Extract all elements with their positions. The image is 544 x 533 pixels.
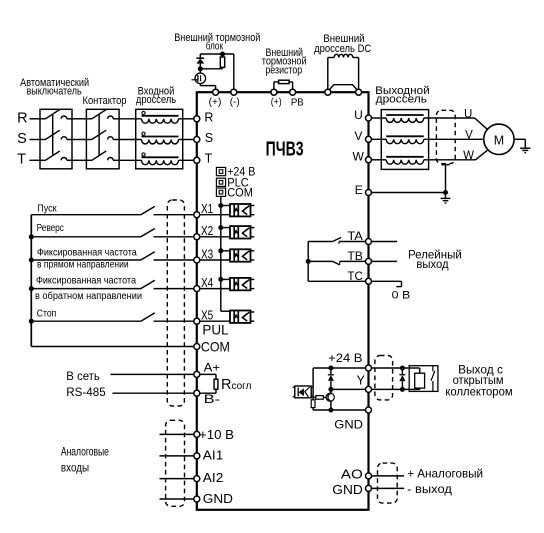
terminal DC choke b on top bus — [356, 89, 362, 95]
ground symbol at E — [441, 197, 451, 199]
transistor VT1 (brake IGBT) — [199, 69, 201, 73]
node E-ground junction — [443, 190, 448, 195]
optocoupler U-X5 — [230, 311, 251, 323]
svg-text:Y: Y — [357, 374, 366, 388]
wire X5 bus to switch — [31, 320, 141, 322]
terminal X3 on PCHV3 — [194, 257, 200, 263]
svg-text:X2: X2 — [201, 223, 213, 238]
svg-text:+24 В: +24 В — [328, 351, 362, 365]
svg-text:GND: GND — [332, 483, 363, 497]
cable screen analog inputs (dashed) — [166, 420, 185, 506]
terminal T on PCHV3 — [194, 157, 200, 163]
inductor L-DC (external DC choke) — [327, 58, 329, 90]
wire X3 opto outputs — [251, 250, 255, 252]
terminal R on PCHV3 — [194, 116, 200, 122]
transistor VT2 (open collector) — [326, 393, 334, 401]
relay contacts common bar — [307, 242, 309, 282]
wire TC to 0V — [371, 280, 401, 282]
wire AI2 external stub — [160, 478, 195, 480]
wire U terminal to choke — [371, 117, 386, 119]
wire X3 bus to switch — [31, 259, 141, 261]
shield of motor cable (dashed box) — [436, 110, 455, 163]
svg-text:(+): (+) — [209, 96, 222, 108]
wire motor to ground — [514, 138, 525, 140]
wire W terminal to choke — [371, 159, 386, 161]
terminal X1 on PCHV3 — [194, 212, 200, 218]
terminal W output — [366, 157, 372, 163]
terminal (-) brake on top bus — [231, 89, 237, 95]
svg-text:V: V — [465, 130, 473, 142]
svg-text:GND: GND — [203, 491, 233, 506]
svg-text:TB: TB — [347, 251, 363, 263]
wire TA external — [371, 241, 397, 243]
circuit breaker QF1 box — [40, 109, 72, 169]
svg-text:AI1: AI1 — [203, 447, 224, 462]
node bus junction X5 — [29, 319, 34, 324]
svg-text:V: V — [354, 129, 362, 143]
cable screen Y output (dashed) — [375, 356, 393, 400]
wire Y external — [371, 388, 409, 390]
terminal AI1 — [194, 453, 200, 459]
output choke winding W — [386, 160, 424, 164]
svg-text:A+: A+ — [204, 361, 221, 375]
wire U choke to motor — [424, 117, 475, 119]
svg-text:X4: X4 — [201, 275, 213, 290]
svg-text:- выход: - выход — [407, 482, 452, 496]
wire X5 switch to terminal — [154, 320, 195, 322]
node bus junction X4 — [29, 286, 34, 291]
wire Y internal — [331, 388, 366, 390]
relay contact TB — [308, 260, 332, 262]
terminal DC choke a on top bus — [325, 89, 331, 95]
wire X2 opto cathode — [200, 236, 230, 238]
svg-text:R: R — [204, 110, 213, 124]
cable screen digital inputs (dashed) — [167, 200, 184, 406]
svg-text:W: W — [353, 150, 365, 164]
node emitter-ground junction — [328, 408, 333, 413]
svg-text:COM: COM — [201, 339, 230, 355]
resistor R-charge of brake unit — [222, 54, 224, 57]
wire X1 opto anode — [221, 205, 230, 207]
wire X2 opto anode — [221, 227, 230, 229]
node TB junction — [306, 259, 311, 264]
breaker pole T — [40, 159, 46, 161]
terminal TA — [366, 239, 372, 245]
input choke L1 box — [136, 109, 183, 169]
wire GND external stub — [160, 498, 195, 500]
wire X2 switch to terminal — [154, 236, 195, 238]
node flyback diode bottom — [400, 387, 405, 392]
wire X5 opto cathode — [200, 320, 230, 322]
svg-text:U: U — [464, 108, 472, 120]
wire brake unit to (+) terminal — [200, 85, 215, 87]
wire X1 bus to switch — [31, 214, 141, 216]
terminal X2 on PCHV3 — [194, 234, 200, 240]
wire X4 switch to terminal — [154, 288, 195, 290]
svg-text:Фиксированная частота: Фиксированная частота — [36, 276, 136, 287]
svg-text:X5: X5 — [201, 308, 213, 323]
svg-text:дроссель: дроссель — [136, 94, 176, 106]
breaker linkage bar — [52, 114, 54, 156]
resistor R-emitter pulldown — [311, 400, 315, 408]
wire R contactor to choke — [119, 118, 141, 120]
switch S-X4 blade — [141, 280, 155, 288]
internal common bus to optocouplers — [220, 196, 222, 311]
terminal GND ao — [366, 485, 372, 491]
wire X2 bus to switch — [31, 236, 141, 238]
terminal B- — [194, 390, 200, 396]
motor M1 — [484, 124, 514, 154]
wire AO external — [371, 475, 404, 477]
resistor R-base — [316, 396, 324, 400]
jumper link between DC terminals — [329, 85, 358, 91]
jumper block square +24V — [216, 167, 225, 175]
svg-text:Контактор: Контактор — [83, 95, 127, 107]
wire A+ external — [111, 373, 195, 375]
terminal AI2 — [194, 476, 200, 482]
svg-text:R: R — [17, 110, 27, 126]
svg-text:дроссель: дроссель — [376, 93, 427, 105]
resistor R-term (Rsogl) — [200, 373, 216, 375]
terminal A+ — [194, 371, 200, 377]
output choke L2 box — [381, 110, 428, 170]
relay contact TA — [308, 241, 332, 243]
wire brake unit top bus — [200, 53, 234, 55]
terminal V output — [366, 136, 372, 142]
wire opto to base junction — [311, 396, 313, 398]
optocoupler U6 output — [295, 386, 311, 398]
node brake bottom junction — [198, 66, 203, 71]
terminal +24V — [366, 365, 372, 371]
node opto junction X1 — [218, 203, 223, 208]
diode VD1 of brake unit — [199, 54, 201, 58]
optocoupler U-X3 — [230, 249, 251, 261]
terminal (+) resistor on top bus — [271, 89, 277, 95]
svg-text:+10 В: +10 В — [199, 427, 234, 442]
wire to (-) terminal — [233, 54, 235, 90]
wire T choke to terminal — [179, 159, 195, 161]
svg-text:в обратном направлении: в обратном направлении — [35, 290, 142, 302]
breaker pole S — [40, 139, 46, 141]
node bus junction X3 — [29, 258, 34, 263]
node opto junction X2 — [218, 225, 223, 230]
svg-text:Стоп: Стоп — [37, 309, 57, 320]
terminal E (earth) — [366, 190, 372, 196]
wire GND ao external — [371, 487, 404, 489]
svg-text:блок: блок — [206, 40, 223, 52]
optocoupler U-X2 — [230, 226, 251, 238]
wire X1 opto outputs — [251, 205, 255, 207]
wire T from label to breaker — [30, 159, 41, 161]
node opto junction X3 — [218, 248, 223, 253]
terminal S on PCHV3 — [194, 137, 200, 143]
wire S choke to terminal — [179, 139, 195, 141]
wire diode to resistor bottom — [200, 68, 222, 70]
svg-text:X3: X3 — [201, 246, 213, 261]
wire X4 bus to switch — [31, 288, 141, 290]
svg-text:U: U — [354, 108, 363, 122]
external relay K1 box — [409, 366, 438, 392]
wire TC internal — [308, 280, 366, 282]
svg-text:AO: AO — [341, 467, 363, 482]
terminal GND — [194, 496, 200, 502]
wire T contactor to choke — [119, 159, 141, 161]
wire AI1 external stub — [160, 455, 195, 457]
internal ground bus — [313, 409, 366, 411]
wire TB external — [371, 260, 397, 262]
svg-text:дроссель DC: дроссель DC — [314, 43, 371, 55]
svg-text:ПЧВ3: ПЧВ3 — [266, 138, 304, 160]
wire X1 opto cathode — [200, 214, 230, 216]
terminal (+) brake on top bus — [213, 89, 219, 95]
svg-text:RS-485: RS-485 — [66, 385, 106, 399]
svg-text:(-): (-) — [230, 96, 240, 108]
svg-text:(+): (+) — [271, 96, 282, 108]
input choke winding R — [142, 119, 179, 123]
terminal TC — [366, 278, 372, 284]
terminal COM on PCHV3 — [194, 344, 200, 350]
node Y collector junction — [328, 387, 333, 392]
svg-text:COM: COM — [227, 187, 253, 199]
wire +24V external — [371, 367, 409, 369]
svg-text:Реверс: Реверс — [37, 223, 64, 234]
terminal AO — [366, 473, 372, 479]
node bus junction X2 — [29, 234, 34, 239]
resistor R-brake — [273, 82, 275, 90]
wire S from label to breaker — [30, 139, 41, 141]
contactor pole R — [86, 118, 92, 120]
switch S-X5 blade — [141, 313, 155, 321]
wire X2 opto outputs — [251, 227, 255, 229]
wire R choke to terminal — [179, 118, 195, 120]
wire T breaker to contactor — [72, 159, 86, 161]
wire X3 switch to terminal — [154, 259, 195, 261]
breaker pole R — [40, 118, 46, 120]
svg-text:T: T — [205, 152, 213, 166]
wire S breaker to contactor — [72, 139, 86, 141]
svg-text:GND: GND — [334, 418, 363, 432]
svg-text:AI2: AI2 — [203, 470, 224, 485]
svg-text:TC: TC — [347, 271, 363, 283]
svg-text:Аналоговые: Аналоговые — [61, 444, 109, 458]
optocoupler U-X4 — [230, 278, 251, 290]
svg-text:Фиксированная частота: Фиксированная частота — [37, 248, 137, 259]
svg-text:РВ: РВ — [291, 96, 304, 108]
wire V terminal to choke — [371, 138, 386, 140]
node brake top junction — [220, 52, 225, 57]
svg-text:выключатель: выключатель — [27, 86, 82, 98]
relay K1 coil — [409, 367, 420, 369]
contactor pole S — [86, 139, 92, 141]
common bus of control switches — [30, 215, 32, 347]
terminal Y — [366, 386, 372, 392]
wire R breaker to contactor — [72, 118, 86, 120]
output choke winding U — [386, 118, 424, 122]
switch S-X3 blade — [141, 252, 155, 260]
wire X5 opto outputs — [251, 311, 255, 313]
frequency converter unit PCHV3 (main box) — [197, 92, 369, 510]
wire V choke to motor — [424, 138, 484, 140]
svg-text:TA: TA — [347, 231, 363, 243]
svg-text:0 В: 0 В — [392, 289, 411, 301]
svg-text:B-: B- — [204, 392, 221, 406]
zener diode VD2 — [330, 368, 332, 375]
terminal X5 on PCHV3 — [194, 318, 200, 324]
svg-text:Пуск: Пуск — [37, 203, 57, 214]
optocoupler U-X1 — [230, 204, 251, 216]
terminal U output — [366, 115, 372, 121]
flyback diode VD3 — [401, 368, 403, 375]
terminal +10 В — [194, 431, 200, 437]
jumper block square PLC — [216, 178, 225, 186]
relay K1 contact — [432, 366, 434, 372]
cable screen analog output (dashed) — [378, 463, 398, 503]
svg-text:М: М — [494, 133, 504, 147]
wire B- external — [113, 392, 195, 394]
wire X4 opto anode — [221, 278, 230, 280]
wire +10 В external stub — [160, 433, 195, 435]
contactor linkage bar — [98, 114, 100, 156]
wire X3 opto anode — [221, 250, 230, 252]
wire S contactor to choke — [119, 139, 141, 141]
contactor pole T — [86, 159, 92, 161]
wire +24V internal — [313, 367, 366, 369]
switch S-X2 blade — [141, 229, 155, 237]
wire shield tail to ground — [441, 164, 449, 166]
wire opto to pull-up — [311, 386, 313, 388]
node +24V junction — [328, 366, 333, 371]
svg-text:S: S — [205, 131, 213, 145]
svg-text:входы: входы — [61, 461, 89, 475]
svg-text:коллектором: коллектором — [445, 384, 512, 398]
output choke winding V — [386, 139, 424, 143]
svg-text:резистор: резистор — [265, 65, 302, 77]
svg-text:в прямом направлении: в прямом направлении — [37, 259, 129, 270]
wire W choke to motor — [424, 159, 476, 161]
svg-text:E: E — [355, 183, 363, 197]
terminal X4 on PCHV3 — [194, 286, 200, 292]
input choke winding T — [142, 160, 179, 164]
svg-text:выход: выход — [416, 259, 448, 271]
svg-text:+ Аналоговый: + Аналоговый — [407, 467, 483, 481]
svg-text:В сеть: В сеть — [66, 369, 100, 383]
wire COM to common bus — [31, 346, 194, 348]
wire X1 switch to terminal — [154, 214, 195, 216]
switch S-X1 blade — [141, 206, 155, 214]
node flyback diode top — [400, 366, 405, 371]
wire X4 opto cathode — [200, 288, 230, 290]
svg-text:T: T — [17, 151, 26, 167]
wire X3 opto cathode — [200, 259, 230, 261]
wire X4 opto outputs — [251, 278, 255, 280]
node opto junction X4 — [218, 277, 223, 282]
terminal TB — [366, 258, 372, 264]
svg-text:S: S — [17, 131, 27, 147]
input choke winding S — [142, 140, 179, 144]
terminal GND oc — [366, 407, 372, 413]
wire E to ground node — [371, 192, 445, 194]
svg-text:W: W — [463, 150, 474, 162]
wire R from label to breaker — [30, 118, 41, 120]
svg-text:PUL: PUL — [202, 323, 229, 338]
contactor KM1 box — [86, 109, 119, 169]
terminal PB on top bus — [290, 89, 296, 95]
pull-up wire to opto output — [312, 368, 314, 387]
jumper block square COM — [216, 188, 225, 196]
ground symbol at motor — [520, 147, 530, 149]
svg-text:X1: X1 — [201, 201, 213, 216]
